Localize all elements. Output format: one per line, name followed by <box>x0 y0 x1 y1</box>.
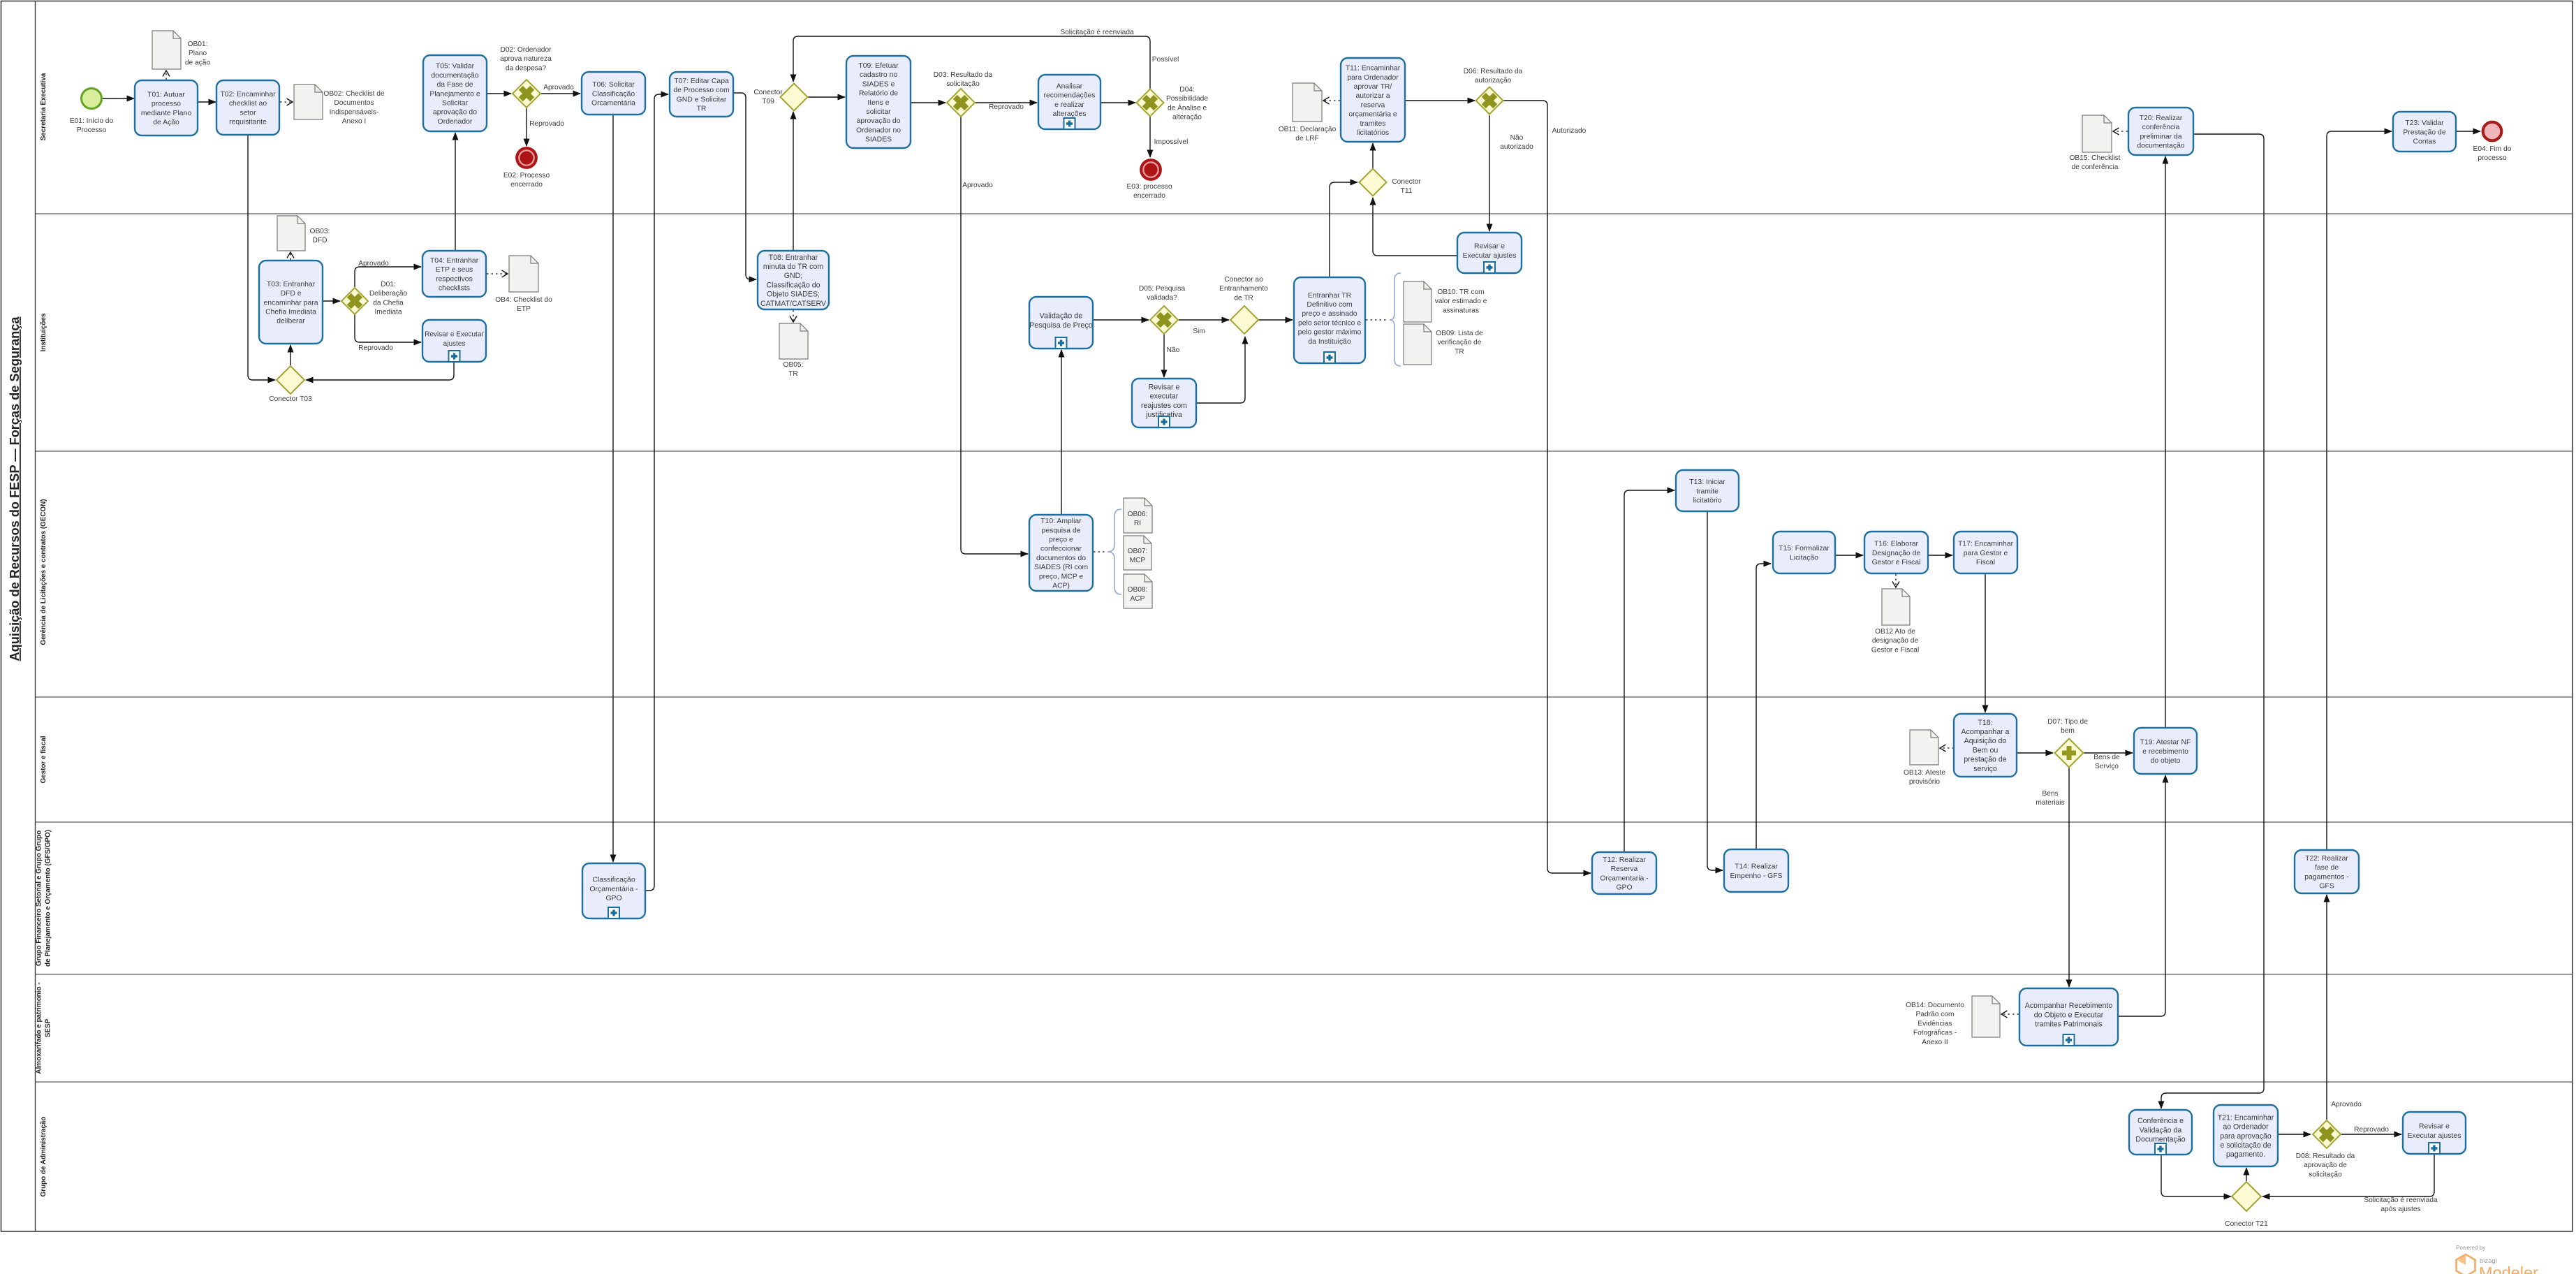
label OB13 <box>1904 769 1945 786</box>
svg-text:GND e Solicitar: GND e Solicitar <box>677 96 727 103</box>
svg-text:Gestor e fiscal: Gestor e fiscal <box>40 735 47 783</box>
svg-text:Reprovado: Reprovado <box>989 103 1024 111</box>
svg-text:T13: Iniciar: T13: Iniciar <box>1689 478 1725 486</box>
svg-text:aprovação do: aprovação do <box>857 117 901 125</box>
svg-text:licitatório: licitatório <box>1693 497 1722 505</box>
svg-text:Powered by: Powered by <box>2456 1245 2485 1251</box>
powered by bizagi modeler logo <box>2456 1245 2538 1274</box>
label E03 <box>1126 183 1172 200</box>
wire T22 up to T23 <box>2327 131 2392 850</box>
svg-text:da Instituição: da Instituição <box>1308 338 1350 346</box>
svg-text:Chefia Imediata: Chefia Imediata <box>265 309 316 316</box>
svg-text:Aprovado: Aprovado <box>543 84 574 91</box>
label Reprovado (D03) <box>989 103 1024 111</box>
label Aprovado (D03) <box>962 182 993 189</box>
wire D02 Reprovado to E02 <box>526 108 527 146</box>
wire T20 down to Conferencia <box>2161 134 2264 1108</box>
label OB09 <box>1436 330 1483 356</box>
svg-text:autorização: autorização <box>1475 77 1512 85</box>
wire T14 up to T15 <box>1756 564 1771 849</box>
wire Conector Entranhamento to Entranhar TR <box>1258 319 1293 321</box>
svg-text:respectivos: respectivos <box>436 275 473 283</box>
label E04 <box>2473 145 2512 162</box>
document OB13 <box>1910 730 1938 765</box>
svg-text:orçamentária e: orçamentária e <box>1348 111 1397 119</box>
svg-text:Serviço: Serviço <box>2095 763 2119 770</box>
svg-text:Reprovado: Reprovado <box>529 120 564 128</box>
svg-text:serviço: serviço <box>1973 765 1997 773</box>
svg-text:aprovar TR/: aprovar TR/ <box>1354 83 1392 91</box>
svg-text:Acompanhar Recebimento: Acompanhar Recebimento <box>2025 1002 2113 1010</box>
document OB4 <box>509 256 538 292</box>
svg-text:OB06:: OB06: <box>1128 511 1148 518</box>
wire T18 to D07 <box>2017 752 2053 754</box>
document OB11 <box>1293 83 1322 122</box>
label Aprovado (D01) <box>358 260 389 268</box>
task T03 <box>259 261 323 344</box>
label OB07 <box>1128 548 1148 564</box>
svg-text:Impossível: Impossível <box>1154 138 1188 146</box>
label OB12 <box>1871 628 1920 654</box>
gateway Conector ao Entranhamento de TR <box>1230 306 1258 334</box>
svg-text:Imediata: Imediata <box>374 309 402 316</box>
svg-text:Conector: Conector <box>1392 178 1421 186</box>
svg-text:do objeto: do objeto <box>2151 757 2181 765</box>
wire T11 to D06 <box>1405 100 1475 101</box>
svg-text:DFD: DFD <box>313 237 327 244</box>
document OB05 <box>779 323 808 359</box>
task T19 <box>2134 728 2197 774</box>
svg-text:Gestor e Fiscal: Gestor e Fiscal <box>1871 646 1920 654</box>
svg-text:solicitação: solicitação <box>946 80 980 88</box>
svg-text:Licitação: Licitação <box>1790 554 1818 562</box>
label Conector Entranhamento <box>1219 276 1268 302</box>
wire D08 Aprovado up to T22 <box>2326 895 2327 1120</box>
svg-text:Itens e: Itens e <box>867 99 889 107</box>
svg-text:T09: T09 <box>762 98 774 105</box>
svg-text:Anexo II: Anexo II <box>1922 1039 1948 1046</box>
wire D03 Reprovado to Analisar <box>975 102 1037 103</box>
gateway Conector T11 <box>1360 169 1387 196</box>
svg-text:após ajustes: após ajustes <box>2380 1206 2420 1213</box>
task T16 <box>1864 532 1928 573</box>
label Conector T09 <box>753 89 783 105</box>
svg-text:solicitação: solicitação <box>2309 1171 2342 1178</box>
svg-text:Grupo de Administração: Grupo de Administração <box>40 1117 47 1197</box>
svg-text:assinaturas: assinaturas <box>1443 307 1479 314</box>
svg-text:Secretaria Executiva: Secretaria Executiva <box>40 73 47 140</box>
svg-text:de conferência: de conferência <box>2072 163 2119 171</box>
svg-text:OB12 Ato de: OB12 Ato de <box>1875 628 1915 636</box>
svg-text:Processo: Processo <box>77 126 107 134</box>
label OB11 <box>1279 126 1337 142</box>
wire T03 to D01 <box>323 300 340 302</box>
svg-text:Autorizado: Autorizado <box>1552 127 1587 135</box>
svg-text:de ação: de ação <box>185 59 211 66</box>
svg-text:T08: Entranhar: T08: Entranhar <box>769 254 818 262</box>
wire D01 Aprovado to T04 <box>355 267 421 288</box>
wire T13 down to T14 <box>1707 511 1723 870</box>
svg-text:de TR: de TR <box>1234 294 1253 302</box>
task T05 <box>423 55 487 131</box>
svg-text:T04: Entranhar: T04: Entranhar <box>430 257 479 265</box>
svg-text:ACP): ACP) <box>1052 583 1070 590</box>
task T11 <box>1341 58 1405 142</box>
svg-text:Classificação: Classificação <box>592 877 635 884</box>
svg-text:TR: TR <box>697 105 707 113</box>
svg-text:D01:: D01: <box>381 281 396 288</box>
document OB01 <box>152 31 181 69</box>
svg-text:encerrado: encerrado <box>1133 192 1165 200</box>
lane boundary y=1177 <box>36 821 2573 823</box>
svg-text:Reprovado: Reprovado <box>358 344 393 352</box>
svg-text:T07: Editar Capa: T07: Editar Capa <box>674 78 729 85</box>
svg-text:Modeler: Modeler <box>2479 1264 2538 1274</box>
dashed Entranhar TR to brace OB10-09 <box>1366 319 1388 321</box>
wire Conector T21 up to T21 <box>2246 1168 2247 1181</box>
task T20 <box>2128 108 2193 155</box>
svg-text:pelo gestor máximo: pelo gestor máximo <box>1298 329 1362 337</box>
svg-text:ao Ordenador: ao Ordenador <box>2223 1123 2269 1132</box>
svg-text:D03: Resultado da: D03: Resultado da <box>934 71 993 79</box>
label Aprovado (D08) <box>2331 1101 2362 1108</box>
dashed T02 to OB02 <box>280 101 293 103</box>
svg-text:TR: TR <box>1455 348 1464 356</box>
svg-text:Conector: Conector <box>753 89 783 96</box>
svg-text:Almoxarifado e patrimonio -: Almoxarifado e patrimonio - <box>36 982 43 1074</box>
svg-text:encerrado: encerrado <box>510 181 543 189</box>
svg-text:fase de: fase de <box>2315 864 2339 872</box>
svg-text:T11: T11 <box>1401 187 1413 195</box>
svg-text:OB02: Checklist de: OB02: Checklist de <box>323 90 385 98</box>
dashed T11 to OB11 <box>1323 100 1340 101</box>
wire T12 up to T13 <box>1624 490 1675 852</box>
svg-text:Indispensáveis-: Indispensáveis- <box>330 108 379 116</box>
task T04 <box>422 251 486 297</box>
svg-text:Pesquisa de Preço: Pesquisa de Preço <box>1029 321 1093 330</box>
svg-text:Padrão com: Padrão com <box>1916 1011 1955 1018</box>
lane boundary y=1549 <box>36 1081 2573 1083</box>
svg-text:D02: Ordenador: D02: Ordenador <box>500 46 552 54</box>
svg-text:D04:: D04: <box>1179 86 1195 94</box>
svg-text:aprovação de: aprovação de <box>2304 1162 2347 1169</box>
wire T04 up to T05 <box>455 133 456 251</box>
svg-text:solicitar: solicitar <box>866 108 891 116</box>
svg-text:documentos do: documentos do <box>1036 555 1086 562</box>
svg-text:Gestor e Fiscal: Gestor e Fiscal <box>1872 559 1921 566</box>
svg-text:validada?: validada? <box>1147 294 1177 302</box>
task Entranhar TR Definitivo <box>1294 277 1365 363</box>
svg-text:para Gestor e: para Gestor e <box>1964 550 2008 557</box>
svg-text:minuta do TR com: minuta do TR com <box>763 263 824 271</box>
svg-text:OB01:: OB01: <box>188 41 208 48</box>
svg-text:preço e: preço e <box>1049 536 1073 544</box>
svg-text:Revisar e: Revisar e <box>1474 243 1505 251</box>
svg-text:OB10: TR com: OB10: TR com <box>1437 288 1484 296</box>
svg-text:Acompanhar a: Acompanhar a <box>1962 728 2010 736</box>
svg-text:Anexo I: Anexo I <box>342 118 367 126</box>
svg-text:ETP e seus: ETP e seus <box>436 266 473 274</box>
svg-text:SIADES: SIADES <box>865 136 892 144</box>
task Revisar e Executar ajustes (D01) <box>422 320 486 362</box>
gateway Conector T21 <box>2232 1182 2261 1211</box>
wire Acompanhar to T19 <box>2118 775 2165 1016</box>
svg-text:OB13: Ateste: OB13: Ateste <box>1904 769 1945 777</box>
task T17 <box>1954 532 2017 573</box>
svg-text:Aquisição do: Aquisição do <box>1964 737 2007 745</box>
task T13 <box>1676 470 1739 511</box>
label OB02 <box>323 90 385 126</box>
svg-text:documentação: documentação <box>2137 142 2184 150</box>
svg-text:Validação da: Validação da <box>2140 1126 2182 1134</box>
svg-text:Prestação de: Prestação de <box>2403 129 2445 136</box>
svg-text:Fiscal: Fiscal <box>1976 559 1995 566</box>
svg-text:Entranhamento: Entranhamento <box>1219 285 1268 293</box>
dashed Acompanhar to OB14 <box>2001 1013 2019 1015</box>
document OB12 <box>1882 589 1910 625</box>
svg-text:ACP: ACP <box>1131 595 1145 603</box>
svg-text:deliberar: deliberar <box>277 318 305 325</box>
svg-text:Conector T03: Conector T03 <box>269 395 312 403</box>
svg-text:Sim: Sim <box>1193 328 1205 335</box>
svg-text:checklist ao: checklist ao <box>229 100 267 108</box>
svg-text:Solicitação é reenviada: Solicitação é reenviada <box>2364 1196 2438 1204</box>
svg-text:Empenho - GFS: Empenho - GFS <box>1730 872 1782 880</box>
svg-text:e recebimento: e recebimento <box>2142 748 2188 756</box>
label Conector T11 <box>1392 178 1421 195</box>
task T12 <box>1592 852 1656 894</box>
wire Validacao to D05 <box>1093 319 1149 321</box>
svg-text:Não: Não <box>1510 134 1524 142</box>
label Nao <box>1167 346 1180 354</box>
svg-text:documentação: documentação <box>431 72 478 80</box>
svg-text:reajustes com: reajustes com <box>1141 402 1187 410</box>
svg-text:confeccionar: confeccionar <box>1040 546 1082 553</box>
svg-text:tramites Patrimonais: tramites Patrimonais <box>2035 1020 2103 1029</box>
label Solicitacao e reenviada <box>1060 29 1134 36</box>
svg-text:DFD e: DFD e <box>280 290 301 298</box>
wire T15 to T16 <box>1835 555 1863 556</box>
svg-text:T06: Solicitar: T06: Solicitar <box>592 81 635 89</box>
label OB08 <box>1128 586 1148 603</box>
svg-text:T21: Encaminhar: T21: Encaminhar <box>2218 1113 2274 1122</box>
lane boundary y=998 <box>36 696 2573 698</box>
svg-text:conferência: conferência <box>2142 124 2180 131</box>
label Conector T03 <box>269 395 312 403</box>
svg-text:Conector T21: Conector T21 <box>2225 1220 2268 1228</box>
svg-text:Conector ao: Conector ao <box>1224 276 1263 284</box>
svg-text:designação de: designação de <box>1872 637 1919 645</box>
task T01 <box>135 80 198 136</box>
svg-text:T22: Realizar: T22: Realizar <box>2305 855 2348 863</box>
label Impossivel <box>1154 138 1188 146</box>
svg-text:ajustes: ajustes <box>443 340 466 348</box>
label Nao autorizado <box>1500 134 1533 151</box>
svg-text:T12: Realizar: T12: Realizar <box>1603 856 1646 864</box>
label D03 <box>934 71 993 88</box>
task Validacao de Pesquisa de Preco <box>1029 297 1093 349</box>
wire Analisar to D04 <box>1101 102 1135 103</box>
wire Revisar lane7 down to Conector T21 <box>2262 1154 2434 1196</box>
svg-text:Aquisição de Recursos do FESP: Aquisição de Recursos do FESP — Forças d… <box>8 316 22 661</box>
svg-text:T09: Efetuar: T09: Efetuar <box>858 62 899 70</box>
label D01 <box>369 281 408 316</box>
wire T01 to T02 <box>198 101 216 103</box>
svg-text:D05: Pesquisa: D05: Pesquisa <box>1139 285 1186 293</box>
wire D04 feedback to Conector T09 <box>793 36 1150 89</box>
label D07 <box>2047 718 2088 735</box>
label Reprovado (D08) <box>2354 1126 2389 1134</box>
svg-text:T03: Entranhar: T03: Entranhar <box>267 281 316 288</box>
gateway D01 <box>341 288 368 314</box>
svg-text:Ordenador no: Ordenador no <box>856 126 901 134</box>
document OB03 <box>277 216 305 251</box>
end event E04 <box>2483 122 2502 141</box>
svg-text:GND;: GND; <box>784 272 802 280</box>
svg-text:E01: Início do: E01: Início do <box>70 117 114 125</box>
label D06 <box>1464 68 1523 85</box>
svg-text:OB05:: OB05: <box>783 361 804 369</box>
svg-text:recomendações: recomendações <box>1044 92 1096 100</box>
label E01 <box>70 117 114 134</box>
wire Conferencia down to Conector T21 <box>2161 1155 2231 1196</box>
svg-text:Classificação: Classificação <box>592 90 635 98</box>
svg-text:Fotográficas -: Fotográficas - <box>1913 1030 1957 1037</box>
task T07 <box>670 72 733 117</box>
svg-text:tramite: tramite <box>1696 488 1718 495</box>
svg-text:Aprovado: Aprovado <box>2331 1101 2362 1108</box>
label OB06 <box>1128 511 1148 527</box>
gateway D04 <box>1137 89 1164 117</box>
svg-text:pesquisa de: pesquisa de <box>1041 527 1080 534</box>
svg-text:para aprovação: para aprovação <box>2220 1132 2272 1141</box>
label Sim <box>1193 328 1205 335</box>
start event E01 <box>82 89 102 109</box>
svg-text:E04: Fim do: E04: Fim do <box>2473 145 2512 153</box>
label Reprovado (D02) <box>529 120 564 128</box>
svg-text:Grupo Financeiro Setorial e Gr: Grupo Financeiro Setorial e Grupo Grupo <box>36 830 43 966</box>
wire D06 Nao autorizado down to Revisar ajustes <box>1489 115 1490 231</box>
svg-text:Executar ajustes: Executar ajustes <box>1463 252 1517 260</box>
task Revisar e executar reajustes <box>1132 379 1196 427</box>
svg-text:da Chefia: da Chefia <box>373 299 404 307</box>
task T08 <box>758 251 829 309</box>
svg-text:Definitivo com: Definitivo com <box>1307 301 1352 309</box>
document OB14 <box>1972 996 2000 1037</box>
svg-text:Bens: Bens <box>2042 790 2058 798</box>
svg-text:T15: Formalizar: T15: Formalizar <box>1779 545 1830 552</box>
gateway D08 <box>2313 1120 2341 1148</box>
svg-text:RI: RI <box>1134 520 1141 527</box>
task T15 <box>1773 532 1835 573</box>
wire D04 Impossivel to E03 <box>1149 117 1151 157</box>
svg-text:bem: bem <box>2061 727 2075 735</box>
svg-text:materiais: materiais <box>2036 799 2064 807</box>
wire Revisar reajustes to Conector Entranhamento <box>1196 337 1245 403</box>
task T14 <box>1724 849 1788 892</box>
svg-text:OB09: Lista de: OB09: Lista de <box>1436 330 1483 337</box>
svg-text:Revisar e: Revisar e <box>2419 1123 2450 1131</box>
label D02 <box>500 46 552 72</box>
wire D05 Nao down to Revisar reajustes <box>1163 334 1165 377</box>
label Autorizado <box>1552 127 1587 135</box>
wire T09 to D03 <box>911 102 945 103</box>
svg-text:GPO: GPO <box>605 895 621 902</box>
svg-text:preliminar da: preliminar da <box>2140 133 2181 140</box>
svg-text:autorizado: autorizado <box>1500 143 1533 151</box>
wire GPO up to T07 <box>645 94 668 891</box>
wire Conector T09 to T09 <box>807 96 845 98</box>
svg-text:alterações: alterações <box>1053 110 1087 118</box>
svg-text:D07: Tipo de: D07: Tipo de <box>2047 718 2088 726</box>
svg-text:verificação de: verificação de <box>1438 339 1482 346</box>
svg-text:T17: Encaminhar: T17: Encaminhar <box>1958 541 2014 548</box>
task Acompanhar Recebimento <box>2019 988 2118 1046</box>
svg-text:T05: Validar: T05: Validar <box>436 63 475 71</box>
task T10 <box>1029 515 1093 591</box>
svg-text:Bem ou: Bem ou <box>1973 746 1999 754</box>
svg-text:Conferência e: Conferência e <box>2137 1117 2184 1125</box>
label OB05 <box>783 361 804 378</box>
svg-text:SIADES e: SIADES e <box>862 80 895 88</box>
svg-text:OB14: Documento: OB14: Documento <box>1906 1002 1964 1009</box>
end event E03 (terminate) <box>1140 159 1162 181</box>
task T02 <box>216 80 279 135</box>
svg-text:Gerência de Licitações e cont: Gerência de Licitações e contratos (GECO… <box>40 499 47 645</box>
svg-text:OB07:: OB07: <box>1128 548 1148 555</box>
task T09 <box>846 56 911 148</box>
svg-text:processo: processo <box>152 101 181 108</box>
task T23 <box>2393 112 2456 152</box>
svg-text:aprova natureza: aprova natureza <box>500 55 552 63</box>
svg-text:T11: Encaminhar: T11: Encaminhar <box>1346 65 1401 73</box>
svg-text:para Ordenador: para Ordenador <box>1347 74 1399 82</box>
label Possivel <box>1152 56 1179 64</box>
svg-text:Planejamento e: Planejamento e <box>429 90 480 98</box>
wire Entranhar TR up to Conector T11 <box>1330 182 1357 277</box>
document OB08 <box>1124 574 1152 608</box>
svg-text:Instituições: Instituições <box>40 313 47 351</box>
label Bens de Servico <box>2093 754 2120 770</box>
svg-text:do Objeto e Executar: do Objeto e Executar <box>2034 1011 2104 1019</box>
label OB01 <box>185 41 211 66</box>
wire E01 to T01 <box>103 98 134 99</box>
svg-text:T18:: T18: <box>1978 719 1992 727</box>
document OB07 <box>1124 536 1151 570</box>
svg-text:SIADES (RI com: SIADES (RI com <box>1034 564 1088 571</box>
wire T17 down to T18 <box>1985 573 1986 712</box>
svg-text:tramites: tramites <box>1360 120 1386 128</box>
dashed T10 to brace OB06-08 <box>1094 551 1105 552</box>
svg-text:TR: TR <box>788 370 798 378</box>
svg-text:T02: Encaminhar: T02: Encaminhar <box>220 91 276 98</box>
label D05 <box>1139 285 1186 302</box>
lane boundary y=306 <box>36 213 2573 214</box>
svg-text:T01: Autuar: T01: Autuar <box>147 91 185 99</box>
wire T02 down to Conector T03 <box>248 135 275 380</box>
svg-text:Bens de: Bens de <box>2093 754 2120 761</box>
svg-text:CATMAT/CATSERV: CATMAT/CATSERV <box>760 300 827 308</box>
svg-text:encaminhar para: encaminhar para <box>264 299 318 307</box>
brace for OB06-OB08 <box>1107 509 1121 594</box>
svg-text:Possibilidade: Possibilidade <box>1166 95 1208 103</box>
wire D03 Aprovado down to T10 <box>961 117 1028 554</box>
gateway D02 <box>513 80 540 108</box>
svg-text:Orçamentária -: Orçamentária - <box>589 886 638 893</box>
task T06 <box>582 72 645 115</box>
svg-text:Não: Não <box>1167 346 1180 354</box>
document OB06 <box>1124 498 1152 533</box>
